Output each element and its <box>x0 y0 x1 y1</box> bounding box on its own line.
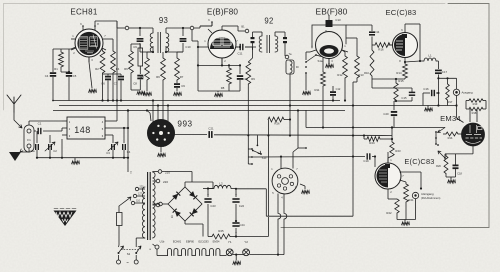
svg-text:E(C)C83: E(C)C83 <box>404 157 434 166</box>
resistor R21 <box>404 182 414 220</box>
terminal right EBF80 <box>240 25 249 33</box>
wire vert x290 <box>289 106 291 136</box>
wire ECH81 k down <box>89 57 97 93</box>
capacitor C15 <box>372 79 415 101</box>
svg-text:R8: R8 <box>221 86 225 90</box>
resistor R1b h <box>443 132 458 140</box>
svg-text:+: + <box>235 231 237 235</box>
resistor R23 <box>388 126 401 163</box>
resistor R22 <box>386 196 399 220</box>
tube EBF80b pins <box>310 29 348 64</box>
svg-text:EC(C)83: EC(C)83 <box>386 8 417 17</box>
IFT92 right lead <box>285 50 292 59</box>
resistor R3 <box>107 39 120 101</box>
tube ECC83t electrodes <box>394 34 407 56</box>
svg-text:EB(F)80: EB(F)80 <box>316 6 348 16</box>
resistor R16 h <box>372 43 392 52</box>
transformer secondary <box>153 172 156 238</box>
IFT92 coil right <box>275 36 278 52</box>
svg-text:R2: R2 <box>95 67 99 71</box>
boxed resistor W <box>138 44 143 74</box>
wire vert x298 <box>297 109 299 148</box>
IFT93 cap right <box>180 28 191 52</box>
IFT93 core <box>158 32 161 53</box>
svg-text:C15: C15 <box>401 96 407 100</box>
bus wire 1 <box>53 100 340 102</box>
capacitor C8 <box>131 76 145 95</box>
ground rail right <box>397 220 416 226</box>
resistor R26 h <box>268 117 290 216</box>
tube EM34 envelope <box>462 123 485 146</box>
IFT92 top wires <box>253 32 286 36</box>
wire L1 down <box>436 61 438 69</box>
tube ECC83b pins <box>388 152 406 196</box>
bridge top wire <box>185 182 213 189</box>
svg-text:C3: C3 <box>106 151 110 155</box>
svg-text:C14: C14 <box>375 30 380 34</box>
label E(C)C83 lower <box>404 157 434 166</box>
wire C24 branch <box>235 217 269 238</box>
svg-text:+: + <box>207 193 209 197</box>
resistor R8 under <box>221 64 232 91</box>
IFT92 cap left <box>251 32 255 50</box>
ground triangle <box>9 152 21 161</box>
label EB(F)80 <box>316 6 348 16</box>
diode G3 <box>173 209 181 217</box>
socket ground <box>300 184 310 194</box>
svg-text:R6: R6 <box>124 67 128 71</box>
svg-text:R21: R21 <box>408 198 414 202</box>
ground EBF80 under <box>198 91 229 97</box>
svg-text:C7: C7 <box>114 82 118 86</box>
capacitor C19b wire <box>374 155 376 167</box>
transformer core <box>148 172 151 240</box>
capacitor C7 <box>113 74 124 101</box>
tube ECC83t envelope <box>393 33 418 58</box>
label E(B)F80 <box>207 8 239 17</box>
wire R4 top <box>131 44 140 49</box>
choke Dr <box>286 60 299 106</box>
wire filter out <box>235 188 266 217</box>
resistor R20 <box>436 154 448 177</box>
rail bottom right <box>266 215 353 217</box>
tube EBF80 pins <box>204 18 240 64</box>
svg-text:S2: S2 <box>127 252 131 256</box>
tube EBF80b topcap <box>326 15 342 27</box>
IFT93 bottom wires <box>140 46 183 53</box>
svg-text:220: 220 <box>140 186 145 189</box>
label ECH81 <box>70 8 98 17</box>
resistor R4 <box>124 49 133 77</box>
mains terminals <box>117 255 139 265</box>
tube EBF80 electrodes <box>210 37 234 50</box>
svg-text:U1b: U1b <box>160 240 165 244</box>
bridge left wire <box>153 202 169 206</box>
wire ECH81 grid left <box>53 47 76 49</box>
label EC(C)83 <box>386 8 417 17</box>
svg-text:C11: C11 <box>238 52 243 56</box>
label 92 <box>264 16 273 25</box>
capacitor C10 under <box>229 65 249 91</box>
tube 993 output wire <box>175 134 208 136</box>
socket bottom wire b <box>284 194 287 255</box>
svg-text:F1: F1 <box>27 138 31 142</box>
wire 148 pin5 <box>110 127 129 129</box>
heater ground <box>233 254 284 265</box>
IFT93 top wires <box>134 27 184 33</box>
resistor R1 <box>54 49 70 73</box>
svg-text:Y2: Y2 <box>244 240 248 244</box>
svg-text:C2a: C2a <box>29 149 35 153</box>
box 148 pins <box>62 120 110 138</box>
svg-text:C9: C9 <box>181 84 185 88</box>
svg-text:L2: L2 <box>219 182 223 186</box>
svg-text:C18: C18 <box>457 172 462 176</box>
diode G4 <box>190 208 198 216</box>
svg-text:R25: R25 <box>218 229 224 233</box>
IFT92 core <box>267 35 270 53</box>
bus wire 2 <box>59 105 457 107</box>
mains switch S2 <box>118 245 142 256</box>
tube ECH81 electrodes <box>77 32 100 55</box>
switch S1d <box>435 128 445 145</box>
IFT93 right lead <box>183 26 212 30</box>
tube ECH81 envelope <box>75 29 103 57</box>
IFT93 coil right <box>166 33 169 52</box>
capacitor C3 variable <box>106 135 118 159</box>
bridge wires <box>168 187 202 221</box>
svg-text:C8: C8 <box>133 82 137 86</box>
wire ECC83t top <box>405 24 421 62</box>
svg-text:C23: C23 <box>210 204 216 208</box>
svg-text:R7: R7 <box>180 75 184 79</box>
wire net c <box>253 155 365 157</box>
wire R14 join <box>372 78 405 80</box>
tube EM34 marks <box>466 125 483 143</box>
wire C11 to IFT92 <box>245 46 252 48</box>
capacitor C22 <box>232 189 244 222</box>
terminal Eingang <box>412 192 440 220</box>
svg-text:110: 110 <box>136 200 140 203</box>
svg-text:R16: R16 <box>378 48 384 52</box>
wire ECC83t anode right <box>405 61 424 62</box>
tube EBF80b envelope <box>316 32 343 59</box>
output loop <box>437 77 456 106</box>
heater text row <box>160 240 220 244</box>
svg-text:C9: C9 <box>133 45 137 49</box>
capacitor C24 <box>232 220 245 237</box>
tube ECH81 pins <box>71 22 107 62</box>
svg-text:C4: C4 <box>45 74 49 78</box>
resistor R11 <box>315 55 326 128</box>
tube EM34 pins <box>458 133 462 135</box>
tube ECC83b electrodes <box>377 164 391 188</box>
capacitor C21 <box>208 127 214 138</box>
diode G2 <box>189 191 197 199</box>
wire EM34 top <box>457 106 464 123</box>
tube EBF80 envelope <box>208 30 236 58</box>
capacitor C6 <box>101 74 113 101</box>
antenna <box>7 95 21 112</box>
wire 148 pin4 up <box>110 101 117 122</box>
capacitor C17 <box>435 70 448 93</box>
IFT93 cap left <box>133 28 143 52</box>
paper background <box>0 0 1 1</box>
svg-text:R1: R1 <box>54 67 58 71</box>
svg-text:C4: C4 <box>127 150 131 154</box>
heater ECC83 <box>196 249 210 256</box>
resistors R19 R18 <box>466 99 486 122</box>
IFT92 coil left <box>259 36 262 52</box>
svg-text:C6: C6 <box>101 82 105 86</box>
svg-text:R5: R5 <box>140 75 144 79</box>
resistor R15 <box>394 79 404 102</box>
svg-text:148: 148 <box>74 125 91 135</box>
svg-text:C20: C20 <box>383 112 389 116</box>
resistor R6 <box>156 52 165 120</box>
svg-text:~: ~ <box>126 260 129 265</box>
capacitor C4 <box>45 49 56 101</box>
heater EM34 <box>210 249 227 256</box>
svg-text:R6: R6 <box>156 75 160 79</box>
svg-text:EBF80: EBF80 <box>186 240 194 244</box>
resistor R25 h <box>208 229 236 239</box>
wire EBF80 grid down <box>197 47 199 91</box>
IFT93 coil left <box>150 33 153 52</box>
wire T feed <box>127 109 132 175</box>
svg-text:220: 220 <box>163 180 168 184</box>
connector F1 <box>24 125 34 152</box>
svg-text:C19: C19 <box>363 159 369 163</box>
label 993 <box>177 120 192 129</box>
wire cathode row <box>198 59 241 67</box>
tube ECC83t pins <box>388 27 405 63</box>
svg-text:R22: R22 <box>386 211 392 215</box>
svg-text:EM34: EM34 <box>213 240 220 244</box>
socket bottom wire a <box>277 194 281 256</box>
wire EM34 cathode <box>445 146 473 154</box>
resistor R13 <box>346 38 364 106</box>
svg-text:92: 92 <box>264 16 273 25</box>
tube socket <box>271 168 298 200</box>
capacitor C19 <box>363 153 375 163</box>
svg-text:R9: R9 <box>251 77 255 81</box>
svg-text:C10: C10 <box>185 45 191 49</box>
IFT92 left lead <box>252 47 256 50</box>
tube ECC83b envelope <box>375 163 401 189</box>
wire F1 to C1 <box>29 121 62 131</box>
label 93 <box>159 16 168 25</box>
wire EBF80 grid <box>192 30 204 48</box>
capacitor C11 <box>236 44 252 56</box>
svg-text:R18: R18 <box>472 111 477 115</box>
bus dots <box>52 99 291 111</box>
svg-text:E(B)F80: E(B)F80 <box>207 8 239 17</box>
svg-text:93: 93 <box>159 16 168 25</box>
capacitor C20 <box>383 101 397 128</box>
resistor R9 col <box>246 50 255 135</box>
svg-text:+: + <box>235 193 237 197</box>
svg-text:R10: R10 <box>364 71 369 75</box>
svg-text:127: 127 <box>138 193 143 196</box>
transformer taps left <box>131 186 145 205</box>
capacitor C10b <box>330 86 341 102</box>
wire EBF80b cathode <box>326 59 334 68</box>
terminal Ausgang <box>453 89 473 106</box>
coil L1 <box>424 54 436 62</box>
heater EBF80 <box>182 249 196 256</box>
wire ECC83b out <box>400 172 423 190</box>
svg-text:S1a: S1a <box>318 59 323 63</box>
resistor R10 v <box>364 45 374 79</box>
svg-text:993: 993 <box>177 120 192 129</box>
svg-text:ECH81: ECH81 <box>173 240 182 244</box>
voltage selector <box>119 197 131 213</box>
svg-text:Y1: Y1 <box>228 240 232 244</box>
switch S1e <box>437 144 446 159</box>
wire EBF80b left pin <box>306 52 310 60</box>
svg-text:C5: C5 <box>73 74 77 78</box>
svg-text:B1: B1 <box>241 25 245 29</box>
svg-text:C1: C1 <box>38 122 42 126</box>
svg-text:Dr: Dr <box>296 65 299 69</box>
wire vert x353 <box>352 104 354 216</box>
capacitor C23 <box>204 187 216 236</box>
ground arrow lead <box>20 148 29 152</box>
svg-text:ECH81: ECH81 <box>70 8 98 17</box>
rail mid right <box>306 110 445 129</box>
wire EBF80 top <box>200 22 212 26</box>
resistor R7 <box>175 52 184 83</box>
bridge label <box>171 215 174 219</box>
svg-text:R17: R17 <box>448 100 453 104</box>
capacitor C1 <box>38 122 62 135</box>
diode G1 <box>172 192 180 200</box>
wire EBF80 anode up <box>222 26 240 31</box>
resistor R24 h <box>363 134 393 145</box>
svg-text:R1b: R1b <box>448 136 453 140</box>
capacitor C5 <box>66 49 77 101</box>
transformer primary <box>136 187 145 245</box>
capacitor C13 <box>174 84 186 96</box>
transformer taps right <box>153 170 193 207</box>
capacitor C14 <box>369 25 380 45</box>
svg-text:C16: C16 <box>423 87 429 91</box>
mains fuse <box>117 213 123 246</box>
heater terminal <box>149 244 168 256</box>
resistor R2 <box>95 48 105 101</box>
tube 993 pins <box>152 125 170 141</box>
heater ECH81 <box>168 249 182 256</box>
bridge bottom wire <box>185 221 203 237</box>
IFT93 top lead <box>117 21 134 30</box>
svg-text:L1: L1 <box>428 54 432 58</box>
svg-text:C22: C22 <box>239 204 245 208</box>
svg-text:(FM-Abstimmen): (FM-Abstimmen) <box>421 196 440 200</box>
tube EBF80b anode blob <box>320 45 339 57</box>
socket top wires <box>281 147 307 168</box>
svg-text:R23: R23 <box>395 149 401 153</box>
label EM34 <box>440 114 461 123</box>
tube EBF80b frame <box>312 25 372 48</box>
IFT92 cap right <box>283 32 287 50</box>
svg-text:R14: R14 <box>396 71 402 75</box>
bottom wire left <box>36 139 128 159</box>
wire ECH81 top <box>95 21 117 101</box>
svg-text:Ausgang: Ausgang <box>462 91 473 95</box>
svg-text:R20: R20 <box>436 164 441 168</box>
capacitor C18 <box>446 154 462 183</box>
svg-text:R12: R12 <box>337 73 343 77</box>
svg-text:R26: R26 <box>274 122 280 126</box>
svg-text:T: T <box>130 171 132 175</box>
resistor R17 <box>446 77 453 105</box>
switch S1a <box>305 54 323 78</box>
bus wire 3 <box>53 110 345 112</box>
choke L2 <box>208 182 236 189</box>
resistor R12 <box>337 50 347 102</box>
bandfilter box 148 <box>67 117 105 139</box>
rail AVC <box>214 134 392 136</box>
tube 993 envelope <box>148 120 175 147</box>
wires to 993 <box>146 99 169 122</box>
svg-text:C13: C13 <box>335 18 341 22</box>
switch S1c cluster <box>248 135 267 165</box>
svg-text:R24: R24 <box>369 141 375 145</box>
lamp Y1 <box>226 240 233 256</box>
resistor R14 <box>396 61 407 79</box>
svg-text:R15: R15 <box>398 79 404 83</box>
lamp Y2 <box>233 240 250 256</box>
ground under 148 <box>72 158 80 164</box>
svg-text:C2: C2 <box>53 149 57 153</box>
capacitor C2a <box>29 131 38 157</box>
svg-text:R11: R11 <box>315 88 320 92</box>
svg-text:4.Eingang: 4.Eingang <box>421 192 434 196</box>
svg-text:E(C)C83: E(C)C83 <box>198 240 209 244</box>
capacitor C3b <box>123 127 131 159</box>
ground S1a <box>303 78 311 95</box>
svg-text:C17: C17 <box>442 70 448 74</box>
capacitor C16 <box>423 87 440 106</box>
svg-text:C21: C21 <box>208 127 214 131</box>
svg-text:C12: C12 <box>336 87 341 91</box>
tube 993 ground <box>158 147 166 157</box>
resistor R5 <box>140 52 153 96</box>
svg-text:R4: R4 <box>116 67 120 71</box>
ground mid right <box>425 106 433 112</box>
wire EM34 right <box>444 154 446 158</box>
speaker logo <box>54 209 77 227</box>
antenna lead arrow <box>14 112 22 128</box>
svg-text:R19: R19 <box>473 102 478 106</box>
capacitor C2 variable <box>45 135 57 157</box>
svg-text:C24: C24 <box>239 223 245 227</box>
